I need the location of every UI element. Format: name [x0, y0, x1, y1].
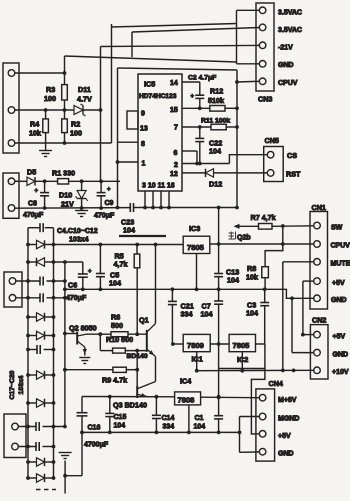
svg-text:470μF: 470μF	[66, 295, 87, 302]
svg-text:1: 1	[142, 161, 146, 168]
svg-text:D5: D5	[27, 168, 36, 177]
svg-text:8: 8	[141, 141, 145, 148]
svg-text:C15: C15	[114, 414, 127, 421]
svg-text:R1 330: R1 330	[52, 169, 75, 178]
svg-text:104: 104	[227, 276, 239, 285]
svg-text:7805: 7805	[233, 341, 251, 350]
svg-text:CPUV: CPUV	[331, 243, 350, 250]
svg-text:100: 100	[70, 129, 82, 138]
svg-text:104: 104	[201, 310, 213, 319]
svg-text:R10 500: R10 500	[106, 335, 133, 344]
svg-text:15: 15	[170, 107, 178, 114]
svg-text:4700μF: 4700μF	[84, 442, 109, 449]
svg-text:-21V: -21V	[278, 45, 293, 52]
svg-text:334: 334	[181, 310, 193, 319]
svg-text:CN5: CN5	[265, 136, 279, 145]
svg-text:334: 334	[163, 424, 175, 431]
svg-text:R12: R12	[210, 87, 223, 96]
svg-text:3.5VAC: 3.5VAC	[278, 10, 302, 17]
svg-text:2: 2	[174, 162, 178, 169]
svg-text:21V: 21V	[61, 200, 74, 209]
svg-text:C4.C10~C12: C4.C10~C12	[57, 228, 98, 235]
svg-text:CN1: CN1	[312, 203, 326, 212]
svg-text:10k: 10k	[246, 273, 258, 282]
svg-text:10k: 10k	[29, 129, 41, 138]
svg-text:GND: GND	[331, 297, 347, 304]
svg-text:+10V: +10V	[332, 369, 349, 376]
svg-text:SW: SW	[331, 225, 343, 232]
svg-text:104: 104	[194, 424, 206, 431]
svg-text:HD74HC123: HD74HC123	[139, 93, 177, 100]
svg-text:IC4: IC4	[180, 377, 191, 386]
svg-text:CN4: CN4	[269, 379, 283, 388]
svg-text:3.5VAC: 3.5VAC	[278, 27, 302, 34]
svg-text:D11: D11	[78, 85, 91, 94]
svg-text:7808: 7808	[178, 395, 195, 404]
svg-text:GND: GND	[333, 352, 349, 359]
svg-text:14: 14	[170, 80, 178, 87]
svg-text:+5V: +5V	[278, 433, 291, 440]
svg-text:CN3: CN3	[258, 95, 272, 104]
svg-text:4,7k: 4,7k	[114, 260, 128, 269]
svg-text:510k: 510k	[208, 96, 224, 105]
svg-text:104: 104	[114, 423, 126, 430]
svg-text:R2: R2	[71, 120, 80, 129]
svg-text:103x4: 103x4	[18, 375, 25, 394]
svg-text:C1: C1	[195, 415, 204, 422]
svg-text:GND: GND	[278, 62, 294, 69]
svg-text:CPUV: CPUV	[278, 80, 298, 87]
svg-text:+: +	[88, 269, 92, 275]
svg-text:IC3: IC3	[189, 224, 200, 233]
svg-text:7: 7	[174, 125, 178, 132]
svg-text:7809: 7809	[187, 341, 204, 350]
svg-text:470μF: 470μF	[94, 213, 115, 220]
svg-text:+: +	[35, 189, 39, 195]
svg-text:R3: R3	[46, 85, 55, 94]
svg-text:C8: C8	[28, 201, 37, 208]
svg-text:104: 104	[209, 147, 221, 156]
svg-text:D10: D10	[59, 191, 72, 200]
svg-text:+5V: +5V	[332, 280, 345, 287]
svg-text:RST: RST	[286, 170, 301, 179]
svg-text:C2 4.7μF: C2 4.7μF	[188, 75, 216, 82]
svg-text:470μF: 470μF	[23, 212, 44, 219]
svg-text:+5V: +5V	[333, 334, 346, 341]
svg-text:C17~C20: C17~C20	[9, 370, 16, 399]
svg-text:9: 9	[141, 111, 145, 118]
svg-text:Q2b: Q2b	[237, 235, 251, 242]
svg-text:+: +	[191, 94, 195, 100]
svg-text:R7 4,7k: R7 4,7k	[251, 213, 276, 222]
svg-text:C6: C6	[68, 281, 77, 290]
svg-text:CS: CS	[287, 151, 297, 160]
svg-text:+: +	[107, 187, 111, 193]
svg-text:C9: C9	[105, 200, 114, 207]
svg-text:100: 100	[44, 94, 56, 103]
svg-text:12: 12	[170, 171, 178, 178]
svg-text:104: 104	[123, 226, 135, 235]
svg-text:13: 13	[140, 126, 148, 133]
svg-text:Q3 BD140: Q3 BD140	[113, 401, 147, 410]
svg-text:IC5: IC5	[144, 80, 155, 89]
svg-text:D12: D12	[209, 180, 222, 189]
svg-text:MUTE: MUTE	[331, 261, 350, 268]
svg-text:103x4: 103x4	[69, 237, 89, 244]
svg-text:104: 104	[246, 309, 258, 318]
svg-text:C14: C14	[162, 415, 175, 422]
svg-text:3 10 11 16: 3 10 11 16	[142, 183, 175, 190]
svg-text:MGND: MGND	[278, 416, 299, 423]
svg-text:M+8V: M+8V	[278, 397, 297, 404]
svg-text:R9 4.7k: R9 4.7k	[102, 376, 127, 385]
svg-text:R4: R4	[30, 120, 39, 129]
svg-text:Q1: Q1	[139, 316, 149, 325]
svg-text:CN2: CN2	[312, 316, 326, 325]
svg-text:R11 100k: R11 100k	[201, 118, 230, 125]
svg-text:104: 104	[109, 279, 121, 288]
svg-text:500: 500	[111, 321, 123, 330]
svg-text:GND: GND	[278, 451, 294, 458]
svg-text:6: 6	[174, 150, 178, 157]
svg-text:7805: 7805	[187, 243, 205, 252]
svg-text:4.7V: 4.7V	[77, 95, 92, 104]
svg-text:C16: C16	[88, 425, 101, 432]
svg-text:Q2 8050: Q2 8050	[69, 324, 97, 333]
